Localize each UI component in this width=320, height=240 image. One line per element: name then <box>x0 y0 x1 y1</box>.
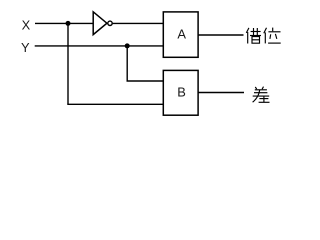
box A <box>163 12 198 57</box>
svg-text:B: B <box>177 85 186 100</box>
inverter NOT gate bubble <box>108 21 112 25</box>
wire NOT gate output to box A <box>113 22 164 24</box>
wire horizontal to box B lower input <box>67 103 163 105</box>
wire vertical from Y junction down <box>126 46 128 81</box>
node junction on X line <box>66 21 71 26</box>
wire X input line <box>35 22 94 24</box>
wire box A output <box>198 34 244 36</box>
inverter NOT gate triangle <box>93 12 107 35</box>
wire Y input line to box A <box>35 45 164 47</box>
wire horizontal to box B upper input <box>127 80 164 82</box>
svg-text:X: X <box>22 17 31 32</box>
node junction on Y line <box>125 43 130 48</box>
svg-text:A: A <box>177 27 186 42</box>
output label cha (difference) drawn as strokes <box>253 87 270 103</box>
box B <box>163 70 198 115</box>
svg-text:Y: Y <box>21 40 30 55</box>
output label jie (borrow char 1) drawn as strokes <box>246 28 261 44</box>
wire vertical from X junction down <box>67 23 69 104</box>
output label wei (borrow char 2) drawn as strokes <box>264 28 281 44</box>
wire box B output <box>198 92 244 94</box>
